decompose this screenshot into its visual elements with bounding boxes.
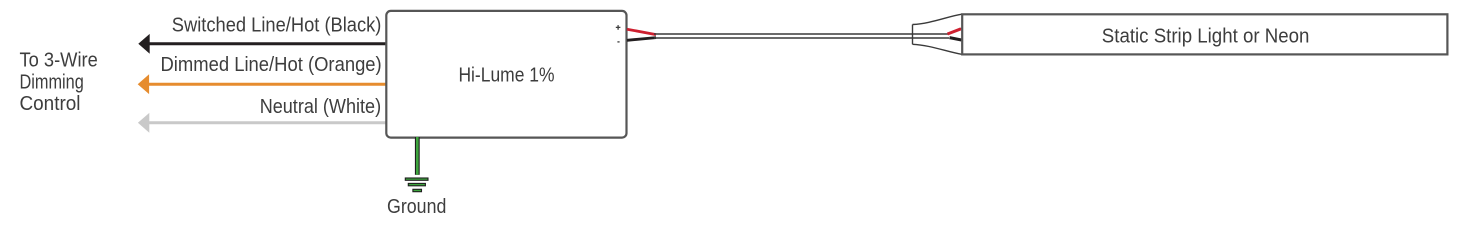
pin - terminal <box>617 41 619 43</box>
wire red (+) from driver <box>627 29 656 34</box>
ground symbol <box>405 178 428 192</box>
wire ground (green) <box>415 137 420 175</box>
svg-text:Control: Control <box>20 93 81 115</box>
svg-text:Static Strip Light or Neon: Static Strip Light or Neon <box>1102 26 1310 48</box>
cable flare into fixture <box>913 14 962 54</box>
wire switched line/hot (black) <box>138 34 386 54</box>
wire neutral (white) <box>138 113 386 133</box>
wire dimmed line/hot (orange) <box>138 74 386 94</box>
svg-text:Switched Line/Hot (Black): Switched Line/Hot (Black) <box>172 15 382 37</box>
wire black (-) from driver <box>627 38 656 41</box>
fixture box Static Strip Light or Neon <box>962 14 1447 54</box>
pin + terminal <box>616 25 621 30</box>
svg-text:Neutral (White): Neutral (White) <box>260 96 381 118</box>
driver box Hi-Lume 1% <box>386 11 626 138</box>
svg-text:Dimming: Dimming <box>20 72 84 94</box>
wire 2-conductor cable <box>654 34 949 38</box>
wire red (+) into fixture <box>948 27 967 34</box>
svg-text:Dimmed Line/Hot (Orange): Dimmed Line/Hot (Orange) <box>161 54 382 76</box>
wire black (-) into fixture <box>950 38 968 42</box>
svg-text:To 3-Wire: To 3-Wire <box>20 50 98 72</box>
svg-text:Ground: Ground <box>387 196 446 218</box>
svg-text:Hi-Lume 1%: Hi-Lume 1% <box>458 64 554 86</box>
node To 3-Wire Dimming Control label <box>20 50 98 116</box>
